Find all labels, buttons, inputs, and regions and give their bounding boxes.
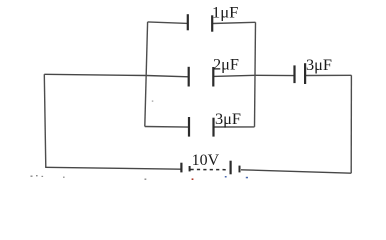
wire bottom left (to battery) — [45, 167, 181, 169]
wire left vertical — [44, 74, 46, 167]
capacitor C2 2uF — [189, 67, 214, 87]
svg-text:2μF: 2μF — [213, 56, 239, 73]
wire bottom branch right — [214, 126, 255, 128]
wire right vertical — [350, 75, 352, 173]
wire middle left (node to C2 left plate) — [44, 74, 188, 77]
wire C4 right plate to right corner — [305, 74, 351, 76]
capacitor C3 3uF — [189, 117, 214, 137]
wire middle right (C2 right plate to C4 left plate) — [213, 75, 294, 76]
svg-text:3μF: 3μF — [215, 111, 241, 128]
capacitor C1 1uF — [188, 14, 212, 32]
wire bottom branch left — [145, 126, 189, 129]
svg-text:10V: 10V — [192, 152, 220, 169]
specks (scan noise) — [31, 101, 154, 180]
wire right rail of parallel bank — [255, 22, 256, 127]
svg-text:3μF: 3μF — [306, 57, 332, 74]
svg-text:1μF: 1μF — [212, 5, 239, 22]
wire top branch left — [148, 22, 188, 24]
battery V1 10V — [181, 161, 239, 175]
capacitor C4 3uF — [295, 63, 306, 84]
wire top branch right — [212, 22, 255, 23]
wire bottom right (battery to right corner) — [241, 170, 351, 173]
wire left rail of parallel bank — [145, 22, 148, 127]
